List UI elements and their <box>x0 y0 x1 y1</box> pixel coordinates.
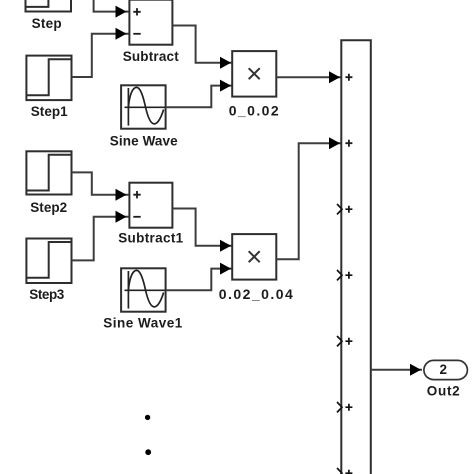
wire Sine Wave1 to product 0.02_0.04 input 2 <box>166 269 233 291</box>
svg-text:2: 2 <box>440 362 448 377</box>
ellipsis dot 1 <box>145 415 150 420</box>
wire Step3 to Subtract1 minus input <box>72 217 130 261</box>
svg-text:Subtract: Subtract <box>123 49 180 64</box>
sum unconnected port 7 <box>337 468 352 474</box>
svg-text:Sine Wave: Sine Wave <box>110 133 178 148</box>
wire Subtract to product 0_0.02 input 1 <box>172 26 232 63</box>
svg-text:Step1: Step1 <box>31 104 68 119</box>
wire Subtract1 to product 0.02_0.04 input 1 <box>172 209 232 246</box>
svg-text:Out2: Out2 <box>427 383 460 398</box>
wire product 0_0.02 to Sum input 1 <box>276 76 341 78</box>
wire Step2 to Subtract1 plus input <box>72 172 130 194</box>
sum unconnected port 3 <box>337 204 352 214</box>
product 0.02_0.04 <box>232 234 276 280</box>
sine source Sine Wave1 <box>121 268 166 311</box>
step source Step2 <box>26 151 71 194</box>
svg-text:Sine Wave1: Sine Wave1 <box>103 316 182 331</box>
step source Step3 <box>26 239 71 284</box>
step source Step1 <box>26 56 71 101</box>
sum unconnected port 5 <box>337 336 352 346</box>
wire Step1 to Subtract minus input <box>72 34 130 77</box>
svg-text:Step3: Step3 <box>29 287 64 302</box>
wire product 0.02_0.04 to Sum input 2 <box>276 143 341 259</box>
svg-text:0_0.02: 0_0.02 <box>229 103 279 119</box>
wire Sum to outport Out2 <box>371 369 422 371</box>
sum block Sum <box>341 40 371 474</box>
svg-text:Step2: Step2 <box>30 200 67 215</box>
step source Step <box>26 0 72 12</box>
svg-text:Subtract1: Subtract1 <box>118 231 183 246</box>
subtractor Subtract <box>129 0 172 45</box>
sum unconnected port 4 <box>337 270 352 280</box>
sum plus sign input 2 <box>345 140 352 147</box>
outport Out2 <box>424 360 468 379</box>
product 0_0.02 <box>232 51 276 97</box>
sum unconnected port 6 <box>337 402 352 412</box>
ellipsis dot 2 <box>145 449 151 455</box>
svg-text:Step: Step <box>32 16 62 31</box>
svg-text:0.02_0.04: 0.02_0.04 <box>219 286 293 302</box>
sine source Sine Wave <box>121 85 166 128</box>
sum plus sign input 1 <box>345 74 352 81</box>
subtractor Subtract1 <box>129 183 172 228</box>
wire Step to Subtract plus input <box>94 0 130 12</box>
wire Sine Wave to product 0_0.02 input 2 <box>166 86 233 108</box>
